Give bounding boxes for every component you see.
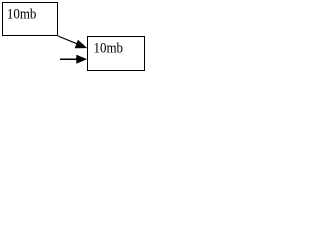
svg-text:10mb: 10mb [7,6,37,22]
svg-text:10mb: 10mb [94,40,124,56]
